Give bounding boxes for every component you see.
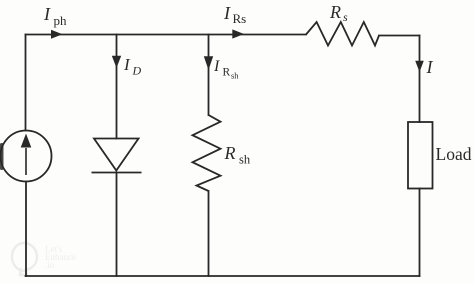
label Iph — [43, 4, 67, 28]
label Rs — [329, 2, 348, 24]
wire: left vertical lower — [25, 182, 27, 277]
watermark Let's Enhance logo — [12, 243, 37, 275]
svg-text:R: R — [329, 2, 341, 22]
label ID — [123, 55, 142, 78]
arrow IRsh on Rsh branch — [204, 56, 213, 70]
left edge artifact blob — [0, 143, 4, 170]
label IRs — [223, 3, 246, 26]
wire: top bus left segment — [26, 34, 307, 36]
wire: diode branch lower — [116, 173, 118, 277]
arrow I on right branch — [415, 61, 424, 72]
current source arrow — [21, 134, 32, 176]
svg-text:R: R — [223, 67, 231, 79]
svg-text:s: s — [343, 10, 348, 24]
wire: left vertical upper — [25, 35, 27, 131]
svg-text:D: D — [132, 64, 142, 78]
svg-text:I: I — [426, 57, 434, 77]
svg-text:sh: sh — [231, 71, 239, 81]
svg-text:I: I — [223, 3, 231, 23]
svg-text:sh: sh — [239, 153, 251, 167]
arrow IRs on top wire — [232, 29, 244, 38]
label IRsh — [213, 58, 239, 81]
wire: Rsh branch upper — [208, 35, 210, 116]
svg-text:R: R — [224, 143, 236, 163]
wire: right vertical upper — [419, 36, 421, 123]
svg-text:Load: Load — [436, 144, 472, 164]
svg-text:Rs: Rs — [233, 11, 247, 26]
resistor Rs — [306, 22, 379, 46]
wire: bottom bus — [26, 275, 420, 277]
load — [408, 122, 433, 189]
wire: right vertical lower — [419, 189, 421, 277]
wire: Rsh branch lower — [208, 191, 210, 276]
label Rsh — [224, 143, 251, 167]
arrow ID on diode branch — [112, 56, 121, 68]
svg-text:.io: .io — [45, 260, 55, 270]
diode D — [92, 139, 142, 173]
wire: top right segment after Rs — [379, 35, 420, 37]
svg-text:ph: ph — [54, 13, 68, 28]
watermark text — [45, 244, 76, 270]
wire: diode branch upper — [116, 35, 118, 139]
svg-text:I: I — [213, 58, 220, 75]
resistor Rsh — [193, 115, 221, 191]
svg-text:I: I — [43, 4, 51, 24]
arrow Iph on top wire — [51, 30, 63, 39]
current source Iph — [1, 131, 52, 182]
